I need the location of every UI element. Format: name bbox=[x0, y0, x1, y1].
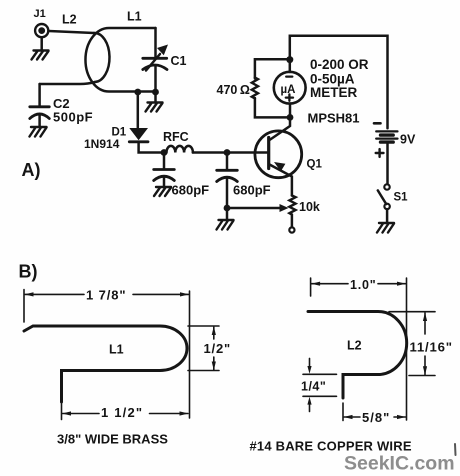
wire J1 to L2 bbox=[49, 31, 94, 33]
capacitor 680pF right bbox=[217, 153, 238, 209]
svg-text:1 1/2": 1 1/2" bbox=[101, 405, 143, 420]
wire node to D1 bbox=[137, 92, 140, 128]
dimension 11/16" bbox=[389, 312, 435, 376]
wire meter top bbox=[289, 60, 292, 72]
node junction C1 / ground bbox=[152, 89, 159, 96]
svg-text:RFC: RFC bbox=[163, 130, 189, 144]
svg-text:Q1: Q1 bbox=[307, 159, 323, 171]
svg-text:#14 BARE COPPER WIRE: #14 BARE COPPER WIRE bbox=[250, 439, 412, 454]
label battery minus bbox=[374, 122, 381, 125]
variable capacitor C1 bbox=[143, 45, 168, 93]
svg-text:1/4": 1/4" bbox=[301, 380, 326, 394]
svg-text:METER: METER bbox=[310, 85, 358, 100]
svg-text:1 7/8": 1 7/8" bbox=[86, 288, 126, 303]
switch S1 bbox=[378, 184, 390, 222]
wire 470 bottom lead bbox=[255, 98, 290, 117]
svg-text:9V: 9V bbox=[400, 133, 416, 147]
svg-text:5/8": 5/8" bbox=[362, 410, 390, 425]
inductor RFC bbox=[167, 146, 193, 153]
wire base bbox=[227, 151, 269, 154]
dimension 1/2" bbox=[188, 326, 219, 371]
ground below S1 bbox=[377, 223, 394, 233]
potentiometer 10k bbox=[289, 196, 295, 233]
node junction meter top bbox=[286, 56, 293, 63]
svg-text:0-200 OR: 0-200 OR bbox=[310, 57, 369, 72]
svg-text:500pF: 500pF bbox=[53, 110, 93, 125]
meter M bbox=[274, 72, 306, 104]
capacitor 680pF left bbox=[154, 153, 175, 188]
svg-text:L1: L1 bbox=[109, 343, 124, 357]
dimension 5/8" bbox=[343, 403, 406, 421]
svg-text:3/8" WIDE BRASS: 3/8" WIDE BRASS bbox=[57, 432, 168, 447]
wire meter bottom to collector node bbox=[289, 104, 292, 118]
diode D1 bbox=[129, 128, 164, 153]
connector J1 bbox=[35, 24, 48, 51]
node junction collector bbox=[287, 114, 294, 121]
svg-text:680pF: 680pF bbox=[172, 183, 210, 198]
inductor L2 coupling loop bbox=[94, 33, 110, 82]
ground below J1 bbox=[32, 51, 49, 60]
svg-text:L1: L1 bbox=[127, 10, 142, 24]
svg-text:SeekIC.com: SeekIC.com bbox=[344, 453, 455, 475]
svg-text:S1: S1 bbox=[394, 192, 409, 204]
transistor Q1 bbox=[255, 117, 302, 195]
svg-text:A): A) bbox=[22, 160, 41, 180]
ground below 680pF right bbox=[217, 208, 234, 230]
svg-text:1.0": 1.0" bbox=[350, 278, 377, 292]
svg-text:680pF: 680pF bbox=[233, 183, 271, 198]
svg-text:470 Ω: 470 Ω bbox=[217, 83, 250, 97]
resistor 470ohm bbox=[252, 78, 258, 99]
dimension 1/4" bbox=[303, 358, 337, 411]
svg-text:B): B) bbox=[19, 262, 38, 282]
wire top rail bbox=[290, 36, 388, 129]
dimension 1.0" bbox=[311, 278, 407, 420]
svg-text:L2: L2 bbox=[347, 339, 362, 353]
svg-text:10k: 10k bbox=[299, 200, 320, 214]
watermark stray mark bbox=[454, 444, 457, 455]
svg-text:1N914: 1N914 bbox=[84, 137, 120, 151]
dimension 1 1/2" bbox=[62, 404, 189, 420]
wire RFC to base node bbox=[193, 151, 227, 154]
inductor L1 loop bbox=[85, 28, 155, 92]
node junction RFC right / base bbox=[224, 149, 231, 156]
svg-text:J1: J1 bbox=[34, 8, 46, 20]
L1 mechanical hairpin bbox=[24, 326, 187, 402]
wire battery to S1 bbox=[386, 143, 389, 185]
node junction L1 bottom / D1 branch bbox=[134, 89, 141, 96]
label battery plus bbox=[376, 149, 384, 157]
label meter range bbox=[310, 57, 369, 100]
node junction cap bottom / wiper bbox=[224, 205, 231, 212]
dimension 1 7/8" bbox=[24, 290, 190, 419]
wire L2 to C2 bbox=[40, 82, 95, 84]
wire C1 top bbox=[154, 28, 157, 57]
svg-text:µA: µA bbox=[281, 84, 296, 96]
L2 mechanical hairpin bbox=[308, 312, 407, 399]
battery 9V bbox=[376, 131, 397, 142]
svg-text:1/2": 1/2" bbox=[204, 341, 231, 356]
ground below C1 bbox=[146, 92, 163, 112]
capacitor C2 bbox=[30, 84, 50, 127]
svg-text:L2: L2 bbox=[62, 13, 77, 27]
wire wiper bbox=[227, 204, 289, 212]
svg-text:11/16": 11/16" bbox=[410, 340, 453, 355]
ground below C2 bbox=[30, 127, 47, 137]
ground below 680pF left bbox=[154, 187, 171, 196]
node junction RFC left bbox=[161, 149, 168, 156]
svg-text:MPSH81: MPSH81 bbox=[308, 111, 360, 126]
svg-text:C1: C1 bbox=[171, 54, 187, 68]
